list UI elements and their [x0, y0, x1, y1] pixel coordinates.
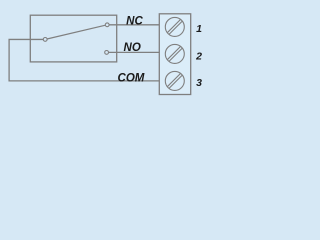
contact NO: [105, 51, 109, 55]
screw terminal 2: [165, 44, 184, 63]
screw terminal 1: [165, 17, 184, 36]
switch arm (pole to NC contact): [47, 25, 106, 39]
svg-text:3: 3: [196, 77, 202, 89]
svg-text:NC: NC: [126, 16, 143, 28]
svg-text:COM: COM: [118, 72, 145, 84]
terminal block body: [159, 14, 190, 95]
contact NC: [105, 23, 109, 27]
wire NO (contact to terminal 2): [108, 51, 159, 53]
svg-text:1: 1: [196, 23, 202, 35]
switch pole contact: [43, 38, 47, 42]
screw terminal 3: [165, 71, 184, 90]
wire COM (pole to terminal 3 loop): [9, 39, 159, 80]
switch enclosure box: [30, 15, 116, 62]
svg-text:NO: NO: [124, 42, 141, 54]
svg-text:2: 2: [195, 50, 202, 62]
wire NC (contact to terminal 1): [109, 24, 159, 26]
